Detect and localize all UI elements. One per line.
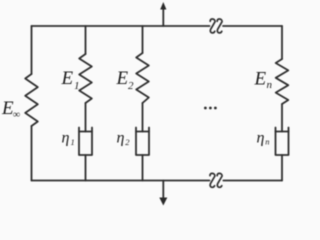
label E2 — [116, 68, 135, 92]
resistor En (spring, right branch) — [276, 59, 289, 104]
dashpot eta1 cup — [79, 128, 92, 156]
svg-text:n: n — [265, 137, 269, 147]
svg-text:n: n — [267, 79, 273, 91]
node branch1 top — [85, 26, 87, 54]
label eta1 — [62, 130, 75, 148]
resistor E1 (spring) — [79, 54, 92, 103]
dashpot eta-n piston plate — [276, 131, 289, 133]
svg-text:E: E — [254, 69, 267, 90]
ellipsis dots — [204, 107, 217, 110]
label E1 — [61, 68, 80, 92]
resistor E2 (spring) — [136, 53, 149, 103]
break symbol bottom — [210, 173, 222, 187]
label eta2 — [117, 130, 131, 147]
node branch2 top — [142, 26, 144, 53]
dashpot eta2 cup — [136, 128, 149, 156]
svg-text:1: 1 — [71, 137, 75, 147]
label En — [254, 69, 273, 92]
wire spring to dashpot 1 — [85, 103, 87, 132]
svg-text:2: 2 — [125, 137, 130, 147]
resistor E_inf (spring, left branch) — [25, 74, 38, 126]
wire spring to dashpot n — [281, 104, 283, 132]
wire bottom rail — [32, 180, 210, 182]
top force arrow — [160, 2, 166, 26]
wire top rail — [32, 25, 210, 27]
svg-text:2: 2 — [128, 80, 134, 92]
wire left rail lower — [31, 126, 33, 181]
label E_inf — [1, 98, 20, 121]
wire bottom rail right of break — [223, 180, 282, 182]
bottom force arrow — [159, 181, 167, 206]
svg-text:E: E — [61, 68, 74, 89]
svg-text:η: η — [257, 130, 265, 147]
wire right rail upper — [281, 26, 283, 59]
wire dashpot 2 to bottom rail — [142, 155, 144, 181]
dashpot eta2 piston plate — [136, 131, 149, 133]
wire dashpot 1 to bottom rail — [85, 155, 87, 181]
wire left rail upper — [31, 26, 33, 74]
svg-text:E: E — [116, 68, 129, 89]
label eta-n — [257, 130, 270, 147]
wire top rail right of break — [223, 25, 282, 27]
wire dashpot n to bottom rail — [281, 155, 283, 181]
break symbol top — [210, 19, 222, 33]
svg-text:1: 1 — [74, 80, 80, 92]
wire spring to dashpot 2 — [142, 103, 144, 132]
dashpot eta1 piston plate — [79, 131, 92, 133]
svg-text:∞: ∞ — [13, 110, 20, 121]
svg-text:η: η — [62, 130, 70, 147]
svg-text:η: η — [117, 130, 125, 147]
dashpot eta-n cup — [276, 128, 289, 156]
